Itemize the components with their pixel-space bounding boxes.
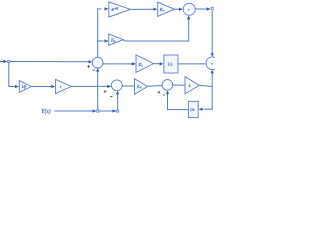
- wire down right edge into sum S5 top: [211, 10, 214, 57]
- wire Y up into sum S2 bottom: [116, 91, 119, 110]
- wire S4 output to right corner: [195, 7, 210, 10]
- wire k output down to integrator U2: [199, 87, 213, 111]
- gain block k: [185, 77, 199, 94]
- sum junction S2 (derivative path input sum): [111, 80, 122, 91]
- wire U2 output feedback to sum S3: [166, 91, 189, 110]
- node input split junction: [8, 60, 10, 62]
- sign plus at S1: [87, 65, 90, 68]
- svg-text:Ki: Ki: [138, 62, 143, 68]
- wire Kd to sum S3: [148, 85, 163, 88]
- wire k output to right vertical: [199, 85, 212, 86]
- wire Y junction1 to junction2: [99, 109, 116, 112]
- node corner junction top right: [211, 7, 213, 9]
- wire Kp to sum S4 bottom: [123, 15, 190, 41]
- wire S2 to gain Kd: [122, 85, 134, 87]
- svg-text:Kp: Kp: [110, 38, 116, 44]
- gain block Kc: [158, 2, 175, 16]
- svg-text:Y(s): Y(s): [41, 108, 51, 115]
- svg-text:1/s: 1/s: [190, 107, 195, 112]
- wire gain s to sum S2: [71, 85, 111, 88]
- wire integrator to sum S5: [178, 63, 206, 65]
- sign plus at S2: [104, 90, 107, 93]
- gain block Kd: [135, 79, 148, 95]
- wire branch riser to gain Kp: [98, 39, 109, 42]
- sum junction S1 (error sum): [92, 57, 103, 68]
- gain block Kp: [109, 34, 124, 45]
- wire S1 output to gain Ki: [103, 62, 136, 65]
- wire branch down to gain 1/b: [9, 63, 19, 88]
- wire up into sum S5 bottom: [211, 70, 214, 87]
- wire arrow into delay block: [105, 7, 109, 10]
- node Y junction 1: [97, 110, 99, 112]
- integrator block 1/s U2: [188, 101, 198, 117]
- wire input to sum S1: [10, 60, 92, 63]
- wire 1/beta to gain s: [31, 85, 55, 88]
- sum junction S5 (final sum, clipped right): [206, 57, 219, 70]
- wire Ki to integrator 1/s: [154, 62, 164, 65]
- node Y junction 2: [117, 110, 119, 112]
- delay block e^-s*tau: [109, 2, 131, 17]
- integrator block 1/s U1: [164, 55, 178, 73]
- wire Y(s) to first junction: [55, 109, 97, 112]
- sign minus at S2: [110, 96, 112, 98]
- gain block Ki: [136, 55, 154, 73]
- wire S3 to gain k: [173, 84, 185, 86]
- sum junction S4 (top sum): [183, 3, 195, 15]
- wire Y up into sum S1 bottom: [96, 68, 99, 110]
- svg-text:Kc: Kc: [159, 7, 165, 13]
- wire riser from S1 top up to delay row: [98, 9, 102, 57]
- svg-text:Kd: Kd: [136, 84, 142, 90]
- sign minus at S1: [92, 69, 95, 71]
- wire input R(s) arrow: [0, 60, 7, 63]
- wire Kc to sum S4: [174, 8, 183, 11]
- sum junction S3 (derivative filter sum): [162, 80, 173, 91]
- gain block tau: [56, 79, 72, 93]
- svg-text:k: k: [189, 83, 191, 88]
- svg-text:1/s: 1/s: [168, 62, 173, 67]
- gain block 1/beta: [19, 81, 31, 93]
- sign minus at S3: [163, 94, 165, 96]
- svg-text:1/β: 1/β: [22, 85, 27, 89]
- wire delay to gain Kc: [130, 8, 157, 11]
- sign plus at S3: [158, 91, 161, 94]
